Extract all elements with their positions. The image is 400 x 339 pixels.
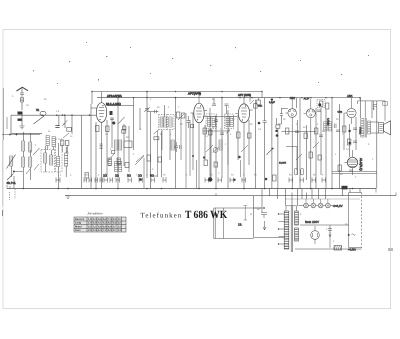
wires: [151, 98, 176, 189]
wires: [96, 98, 129, 189]
resistor: [209, 130, 213, 135]
switch arrow through L3: [7, 155, 16, 169]
cap: [261, 213, 267, 219]
caps right of coils: [334, 124, 336, 129]
small box m: [112, 150, 115, 153]
tube T7 envelope: [347, 157, 357, 167]
components under: [286, 128, 289, 134]
svg-text:0,8µ: 0,8µ: [338, 111, 343, 114]
small box: [125, 163, 129, 168]
bottom line PSU: [295, 248, 362, 250]
coil: [219, 140, 222, 150]
svg-text:7,4: 7,4: [108, 218, 112, 221]
vertical from bus to PSU: [254, 189, 262, 238]
box: [124, 141, 132, 148]
box b2: [122, 130, 126, 134]
switch S3: [118, 117, 125, 124]
scan specks: [33, 42, 369, 84]
svg-text:3,1: 3,1: [93, 225, 97, 228]
svg-text:4050: 4050: [84, 174, 90, 177]
table text smudge: [75, 218, 121, 232]
svg-text:JW-wählere: JW-wählere: [87, 212, 103, 216]
T6 pins: [344, 98, 351, 124]
coil mid2: [117, 158, 121, 165]
dashed box filter2: [56, 139, 63, 172]
wires: [48, 146, 67, 153]
wires verticals stage1: [12, 132, 59, 189]
coil in box a: [160, 117, 163, 127]
coil pair osc: [46, 136, 49, 146]
cap: [220, 133, 224, 135]
interstage coil a: [324, 122, 327, 131]
svg-text:4×6,3V: 4×6,3V: [333, 204, 343, 208]
page border: [3, 30, 391, 309]
trimmer arrows: [26, 164, 39, 174]
vertical x255.3 + resistor: [254, 100, 256, 189]
svg-text:Mittel: Mittel: [75, 225, 82, 228]
tube T5 ACF envelope: [306, 109, 315, 118]
between tubes wire: [299, 98, 301, 189]
node dots on rail: [56, 114, 58, 116]
svg-text:Sk.Pol.: Sk.Pol.: [7, 181, 17, 185]
svg-text:9,1: 9,1: [113, 218, 117, 221]
left edge lower: [2, 140, 4, 206]
transformer core: [365, 118, 366, 138]
tube T1 envelope: [96, 103, 106, 123]
speaker box: [379, 123, 384, 134]
wires under T4/T5: [292, 108, 326, 189]
~ symbol: [352, 234, 356, 236]
IF2 dashed box a: [206, 114, 217, 129]
tube T2 pins: [191, 92, 208, 129]
dark dot det2: [265, 178, 268, 181]
cap: [214, 120, 218, 122]
small components: [237, 132, 241, 138]
svg-text:AF7(AF3): AF7(AF3): [188, 92, 201, 96]
caps cluster: [175, 142, 182, 152]
coil L-ant: [20, 98, 23, 103]
T4 pins: [285, 98, 292, 125]
node: [175, 97, 177, 99]
svg-text:3,6: 3,6: [98, 218, 102, 221]
svg-text:2,2: 2,2: [88, 225, 92, 228]
speaker cone: [384, 121, 391, 135]
wires: [224, 208, 262, 239]
wires: [211, 98, 228, 178]
secondary winding lower: [295, 228, 299, 241]
wire seg y131: [203, 130, 230, 134]
dark dot: [258, 122, 261, 125]
svg-text:8,8: 8,8: [108, 225, 112, 228]
tube T2 envelope: [194, 103, 204, 123]
IF2 dashed box b: [225, 114, 234, 129]
wires right section: [332, 98, 361, 189]
svg-text:Netz 220V: Netz 220V: [305, 220, 319, 224]
cap row: [336, 130, 340, 132]
coil: [171, 140, 174, 150]
rail continues: [358, 101, 386, 121]
svg-text:AL4(AL1): AL4(AL1): [359, 158, 363, 171]
tube T6 envelope: [347, 108, 356, 117]
antenna A: [17, 87, 29, 91]
svg-text:2,5: 2,5: [88, 229, 92, 232]
row caps: [205, 178, 246, 183]
coil osc b: [119, 140, 122, 150]
IF1 dashed box a: [159, 115, 167, 130]
heater wires: [299, 205, 334, 207]
svg-text:≈0,5A: ≈0,5A: [348, 248, 356, 252]
resistor: [96, 126, 100, 132]
coil L2: [29, 142, 32, 152]
dark box anode: [110, 111, 113, 115]
svg-text:m: m: [250, 213, 252, 216]
junction blob: [112, 122, 115, 125]
rectifier tube T8: [311, 231, 320, 240]
coil L5: [29, 157, 32, 167]
svg-text:9,6: 9,6: [113, 222, 117, 225]
vertical x271.9: [271, 100, 273, 189]
left vert pair for speaker field: [214, 208, 224, 239]
node dot: [16, 134, 18, 136]
svg-text:Telefunken: Telefunken: [141, 211, 183, 219]
right box outline: [349, 193, 362, 248]
cap at 330: [328, 229, 332, 231]
avc line: [281, 131, 316, 133]
dark dot2: [275, 130, 277, 132]
wire rail pair right: [332, 172, 377, 174]
components below T7: [349, 170, 353, 172]
tube T1 electrodes: [99, 108, 105, 117]
connector lines top of PSU: [269, 189, 360, 207]
secondary winding upper: [295, 211, 299, 225]
vertical x133: [133, 98, 135, 150]
dashed box filter1: [41, 150, 55, 173]
left margin vertical line: [2, 88, 4, 140]
coil IF2b1: [226, 117, 229, 127]
wires under T3: [238, 115, 249, 189]
resistor pill b: [301, 168, 304, 175]
coil L4: [22, 157, 25, 167]
wire y134.5: [2, 134, 40, 136]
svg-text:6,3: 6,3: [103, 222, 107, 225]
wire horizontal y115: [11, 114, 96, 116]
svg-text:1,9: 1,9: [88, 222, 92, 225]
top connection into transformer: [286, 206, 297, 211]
vertical x264.6 + cap: [263, 98, 267, 189]
small dark cap: [233, 179, 235, 181]
vertical lines right: [372, 101, 377, 189]
svg-text:3,4: 3,4: [93, 229, 97, 232]
svg-text:4,6: 4,6: [98, 225, 102, 228]
tube T3 electrodes: [241, 108, 247, 117]
resistor: [106, 126, 110, 132]
box left bottom: [85, 173, 89, 179]
pot arrow: [267, 148, 275, 155]
dark dot det: [276, 134, 279, 137]
svg-text:7,2: 7,2: [103, 229, 107, 232]
top rail 1: [92, 91, 262, 93]
osc coil pair: [115, 140, 118, 150]
corner wire to T4: [281, 107, 287, 109]
resistor: [67, 127, 72, 131]
small boxes: [61, 140, 64, 146]
rail1 end drop: [261, 92, 263, 98]
capacitor: [55, 126, 59, 128]
coil extra pair: [65, 153, 68, 166]
arrow down: [263, 221, 266, 230]
wires PSU right: [300, 225, 349, 248]
T4 pin circles: [289, 110, 291, 112]
svg-text:ACF: ACF: [304, 97, 310, 101]
switch s4: [154, 129, 160, 134]
secondary: [368, 121, 371, 134]
components under T6: [343, 126, 346, 132]
bus B3 partial: [285, 198, 360, 200]
padder caps row: [104, 177, 166, 183]
T5 pins: [304, 99, 311, 125]
resistor R-in2 (dark): [18, 119, 22, 121]
tube T3 pins: [235, 98, 252, 130]
cap: [145, 109, 149, 111]
bus B2: [65, 195, 396, 197]
resistor pill a: [294, 168, 297, 175]
switch S1: [33, 148, 40, 155]
svg-text:8,2: 8,2: [108, 222, 112, 225]
trimmer arrows: [107, 154, 144, 165]
ground stub: [20, 126, 25, 129]
ballast resistor hatched: [334, 246, 342, 251]
resistor 2,5k: [276, 125, 280, 128]
vertical x147: [146, 92, 148, 179]
rail1 left tick: [91, 92, 93, 105]
res box det: [273, 175, 277, 181]
table block: [74, 217, 126, 232]
svg-text:2,8: 2,8: [93, 222, 97, 225]
wire antenna stem: [21, 89, 23, 94]
vertical x140: [139, 108, 141, 130]
step wire: [151, 170, 158, 176]
tube T1 pins: [91, 92, 134, 128]
svg-text:Kurz: Kurz: [75, 229, 81, 232]
coil L7: [50, 155, 53, 165]
svg-text:7000Ω: 7000Ω: [358, 127, 361, 134]
svg-text:W.: W.: [36, 108, 40, 112]
resistor horiz: [154, 137, 159, 140]
resistor: [203, 128, 207, 134]
components x177-186: [177, 112, 180, 118]
coil in box b: [169, 117, 172, 127]
interstage coil b: [328, 122, 331, 131]
output transformer windings: [361, 119, 364, 138]
small boxes lower: [147, 155, 151, 161]
svg-text:T 686 WK: T 686 WK: [185, 209, 228, 221]
node: [221, 97, 223, 99]
IF1 dashed box b: [168, 115, 175, 130]
coil IF2a2: [212, 117, 215, 127]
top rail 2: [97, 97, 297, 99]
component row y177-183 left: [56, 178, 60, 183]
svg-text:Lang: Lang: [75, 222, 82, 225]
svg-text:13.: 13.: [238, 223, 242, 227]
transformer primary winding: [284, 211, 289, 249]
wire: [277, 118, 282, 189]
wires verticals under y115 rail: [59, 104, 91, 189]
svg-text:9,3: 9,3: [108, 229, 112, 232]
resistor R-in (dark): [18, 112, 23, 115]
svg-text:1,5: 1,5: [88, 218, 92, 221]
small oval screen: [40, 111, 46, 115]
switch S2: [34, 116, 45, 124]
arrow component: [144, 107, 150, 112]
svg-text:2,4: 2,4: [93, 218, 97, 221]
coil IF2b2: [230, 117, 233, 127]
top right rail: [297, 98, 361, 100]
transformer core: [291, 206, 293, 253]
row caps right: [289, 178, 326, 183]
wire x14 down: [13, 176, 15, 189]
T8 anodes: [313, 226, 318, 244]
heater circles row: [304, 203, 309, 208]
right column caps: [280, 108, 283, 124]
T6 electrodes: [349, 112, 355, 115]
svg-text:0,3MΩ: 0,3MΩ: [327, 118, 330, 125]
coil IF2a1: [208, 117, 211, 127]
det corner wire: [286, 147, 297, 171]
T7 electrodes: [348, 160, 357, 167]
svg-text:5,2: 5,2: [103, 218, 107, 221]
wire left frame: [11, 115, 42, 133]
svg-text:4,1: 4,1: [98, 222, 102, 225]
svg-text:6,8: 6,8: [103, 225, 107, 228]
ground G1: [66, 196, 71, 199]
capacitor: [110, 118, 114, 120]
small box: [123, 126, 126, 130]
arrow: [329, 232, 331, 237]
junction dot r: [192, 155, 194, 157]
trimmer arrow: [213, 147, 219, 153]
tube T4 AB1 envelope: [288, 109, 297, 118]
svg-text:Bereich: Bereich: [75, 218, 85, 221]
svg-text:AF7 (AF3): AF7 (AF3): [238, 93, 251, 97]
svg-text:ML1,4,15Ω: ML1,4,15Ω: [106, 102, 122, 106]
wires into transformer: [254, 208, 285, 238]
wire verticals extra: [107, 113, 241, 196]
small boxes: [204, 160, 208, 166]
dashed vertical: [9, 189, 15, 200]
capacitor C-ant: [20, 93, 24, 97]
svg-text:0,1µF: 0,1µF: [269, 101, 276, 104]
trimmer circle: [213, 148, 218, 153]
wires coil extra: [65, 147, 67, 177]
wires to speaker: [371, 122, 379, 133]
coil L3 variable: [10, 156, 13, 166]
wire: [21, 115, 23, 127]
coil mark: [100, 144, 103, 149]
T7 pins: [344, 150, 352, 175]
coil L6: [44, 153, 47, 163]
dot: [263, 207, 265, 209]
wire: [21, 102, 23, 110]
caps above boxes: [212, 104, 229, 106]
node: [146, 91, 148, 93]
dot on rail: [271, 98, 273, 100]
right bracket mark: [244, 206, 248, 221]
dot2: [139, 178, 142, 181]
wire stub: [147, 111, 159, 113]
node: [41, 114, 43, 116]
svg-text:5,0: 5,0: [98, 229, 102, 232]
wires: [193, 98, 228, 189]
trimmer arrow: [63, 133, 69, 138]
bus risers right: [376, 189, 396, 196]
bus B1 left end marks: [7, 185, 10, 189]
caps row left cluster: [84, 178, 113, 183]
dark comp on bus: [342, 186, 348, 190]
rail2 end drop: [296, 98, 298, 108]
tube T3 envelope: [238, 104, 249, 123]
rail stubs with comps: [250, 98, 259, 102]
coil L1: [22, 141, 25, 151]
electrolytic dot: [208, 177, 212, 181]
tube T2 electrodes: [196, 108, 202, 117]
node: [348, 234, 350, 236]
right column cluster x317-330: [317, 100, 325, 108]
svg-text:10,000: 10,000: [279, 162, 287, 165]
wire: [6, 117, 8, 129]
capacitor on stub: [155, 110, 157, 113]
bus B1: [7, 188, 376, 190]
junction dots on bus B1: [23, 188, 354, 190]
stray scan marks: [2, 210, 393, 251]
coil mid1: [108, 158, 112, 166]
mid rail y116.5: [203, 116, 237, 118]
switch: [206, 145, 213, 152]
coil L8: [57, 157, 60, 167]
junction dots mid: [203, 156, 205, 158]
T5 pin circles: [307, 110, 309, 112]
arrows: [136, 155, 144, 162]
